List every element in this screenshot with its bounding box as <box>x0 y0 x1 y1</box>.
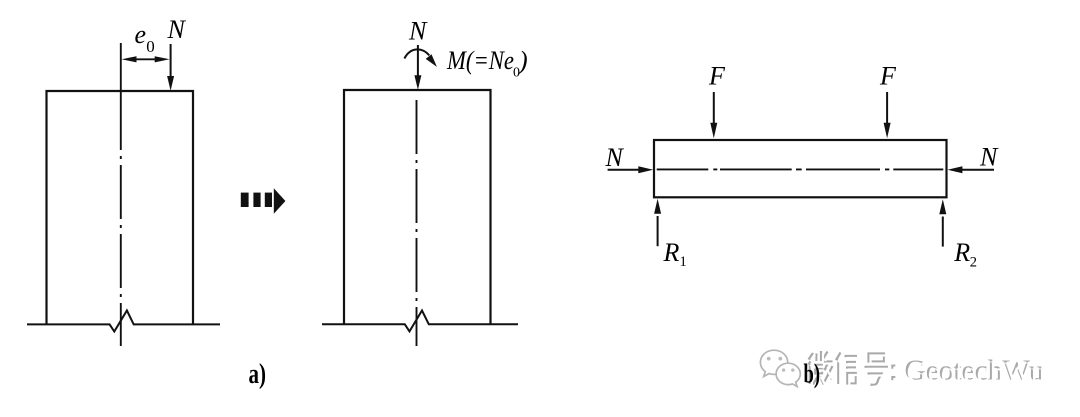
svg-text:e: e <box>135 20 147 49</box>
svg-text:N: N <box>605 143 625 172</box>
svg-text:2: 2 <box>970 255 977 271</box>
svg-text:R: R <box>663 238 680 267</box>
svg-text:M(=Ne: M(=Ne <box>446 46 514 75</box>
svg-text:b): b) <box>804 358 821 389</box>
svg-text:1: 1 <box>680 254 687 270</box>
svg-text:a): a) <box>249 359 267 390</box>
svg-text:F: F <box>879 62 897 91</box>
svg-text:N: N <box>979 143 999 172</box>
svg-text:F: F <box>708 62 726 91</box>
svg-text:N: N <box>167 15 187 44</box>
svg-text:N: N <box>408 17 428 46</box>
svg-text:): ) <box>517 46 528 75</box>
svg-text:R: R <box>953 238 970 267</box>
svg-text:0: 0 <box>146 37 155 56</box>
